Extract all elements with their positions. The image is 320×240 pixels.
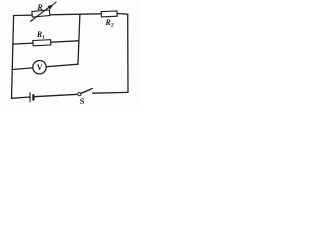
wire R1 branch bbox=[13, 41, 79, 44]
wire top bbox=[14, 14, 128, 16]
wire right side bbox=[127, 14, 129, 92]
svg-text:V: V bbox=[37, 63, 43, 72]
voltmeter V bbox=[33, 60, 46, 73]
svg-text:S: S bbox=[80, 97, 85, 106]
wire bottom middle (battery to switch) bbox=[34, 94, 77, 96]
switch S bbox=[78, 89, 93, 96]
rheostat R (arrow) bbox=[31, 2, 57, 21]
resistor R2 (box) bbox=[101, 11, 117, 17]
wire bottom left (to battery) bbox=[12, 97, 31, 98]
wire bottom right (switch to corner) bbox=[93, 91, 128, 94]
svg-text:R: R bbox=[36, 3, 43, 12]
wire left side bbox=[12, 16, 14, 99]
wire middle vertical (junction to voltmeter branch) bbox=[78, 14, 80, 64]
rheostat R (box) bbox=[32, 10, 50, 17]
battery bbox=[30, 93, 33, 102]
resistor R1 (box) bbox=[33, 40, 51, 46]
wire voltmeter branch bbox=[12, 64, 78, 69]
